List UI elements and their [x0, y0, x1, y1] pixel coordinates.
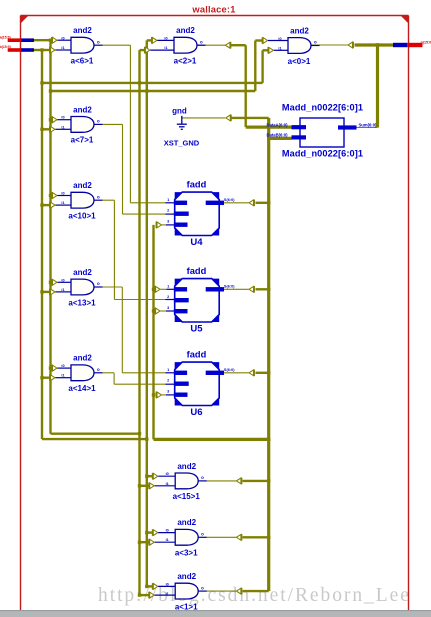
svg-text:o: o	[201, 532, 204, 537]
svg-text:1: 1	[167, 198, 169, 202]
svg-text:Sum(6:0): Sum(6:0)	[359, 123, 378, 128]
svg-text:i1: i1	[61, 201, 64, 205]
svg-text:a<3>1: a<3>1	[175, 549, 198, 558]
svg-text:a<6>1: a<6>1	[71, 57, 94, 66]
svg-text:fadd: fadd	[187, 349, 207, 359]
svg-text:and2: and2	[177, 518, 196, 527]
svg-text:a<15>1: a<15>1	[173, 492, 201, 501]
svg-text:XST_GND: XST_GND	[164, 138, 200, 147]
svg-text:and2: and2	[73, 354, 92, 363]
svg-text:o: o	[97, 281, 100, 286]
svg-text:i1: i1	[61, 374, 64, 378]
svg-text:a<14>1: a<14>1	[68, 384, 96, 393]
svg-text:S(6:0): S(6:0)	[224, 198, 235, 202]
svg-text:and2: and2	[290, 26, 309, 35]
svg-text:3: 3	[167, 220, 169, 224]
svg-text:Madd_n0022[6:0]1: Madd_n0022[6:0]1	[282, 103, 363, 113]
svg-text:i1: i1	[166, 538, 169, 542]
svg-text:fadd: fadd	[187, 266, 207, 276]
svg-text:a<10>1: a<10>1	[68, 212, 96, 221]
svg-text:i0: i0	[164, 37, 167, 41]
svg-text:o: o	[97, 119, 100, 124]
svg-text:and2: and2	[176, 26, 195, 35]
svg-text:o: o	[314, 40, 317, 45]
svg-text:and2: and2	[73, 105, 92, 114]
svg-text:and2: and2	[73, 268, 92, 277]
svg-text:1: 1	[167, 368, 169, 372]
svg-text:Madd_n0022[6:0]1: Madd_n0022[6:0]1	[282, 149, 363, 159]
svg-text:gnd: gnd	[172, 107, 187, 116]
svg-text:U4: U4	[190, 237, 203, 248]
svg-text:and2: and2	[73, 26, 92, 35]
svg-text:a(15:0): a(15:0)	[0, 35, 11, 39]
svg-text:o: o	[97, 39, 100, 44]
svg-text:1: 1	[167, 284, 169, 288]
svg-text:o: o	[201, 475, 204, 480]
svg-text:i0: i0	[278, 37, 281, 41]
svg-text:i1: i1	[166, 482, 169, 486]
svg-text:S(6:0): S(6:0)	[224, 368, 235, 372]
svg-text:a<7>1: a<7>1	[71, 136, 94, 145]
svg-text:DataB(6:0): DataB(6:0)	[267, 133, 289, 138]
svg-text:3: 3	[167, 390, 169, 394]
svg-text:and2: and2	[177, 462, 196, 471]
svg-text:a<13>1: a<13>1	[68, 298, 96, 307]
svg-text:i1: i1	[166, 592, 169, 596]
svg-text:i1: i1	[61, 125, 64, 129]
svg-text:p(15:0): p(15:0)	[421, 40, 431, 44]
svg-text:b(15:0): b(15:0)	[0, 45, 11, 49]
svg-text:wallace:1: wallace:1	[191, 4, 235, 14]
svg-text:2: 2	[167, 209, 169, 213]
svg-text:o: o	[201, 585, 204, 590]
svg-text:i0: i0	[61, 192, 64, 196]
svg-text:U5: U5	[190, 324, 203, 335]
svg-text:o: o	[97, 367, 100, 372]
svg-text:i1: i1	[61, 46, 64, 50]
svg-text:and2: and2	[73, 181, 92, 190]
svg-text:i0: i0	[166, 582, 169, 586]
svg-text:o: o	[200, 39, 203, 44]
svg-text:a<0>1: a<0>1	[288, 57, 311, 66]
svg-text:DataA(6:0): DataA(6:0)	[267, 122, 289, 127]
svg-text:a<2>1: a<2>1	[174, 57, 197, 66]
svg-text:i0: i0	[61, 278, 64, 282]
svg-text:U6: U6	[190, 407, 202, 418]
svg-text:3: 3	[167, 306, 169, 310]
svg-text:o: o	[97, 194, 100, 199]
svg-text:i0: i0	[61, 364, 64, 368]
svg-text:2: 2	[167, 295, 169, 299]
svg-text:2: 2	[167, 379, 169, 383]
svg-text:i1: i1	[61, 288, 64, 292]
svg-text:i1: i1	[164, 46, 167, 50]
svg-text:i0: i0	[61, 37, 64, 41]
svg-text:a<1>1: a<1>1	[175, 602, 198, 611]
svg-text:and2: and2	[177, 572, 196, 581]
svg-text:S(6:0): S(6:0)	[224, 284, 235, 288]
svg-text:i0: i0	[166, 472, 169, 476]
svg-text:fadd: fadd	[187, 179, 207, 189]
svg-text:i0: i0	[61, 116, 64, 120]
svg-text:i1: i1	[278, 46, 281, 50]
svg-text:i0: i0	[166, 529, 169, 533]
